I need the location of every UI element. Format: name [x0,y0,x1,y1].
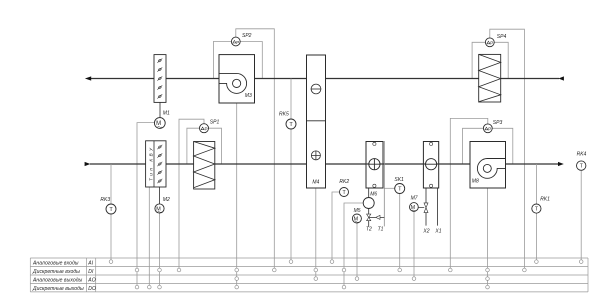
SP3 DI [449,268,453,272]
sensor SP4 (dP) [485,38,494,47]
svg-text:M8: M8 [472,178,479,184]
svg-text:Дискретные входы: Дискретные входы [32,269,80,275]
actuator M1 [154,118,165,129]
svg-text:Аналоговые входы: Аналоговые входы [32,260,79,266]
M2 DI [158,268,162,272]
SP4 DI [523,268,527,272]
actuator M7 [410,203,419,212]
svg-text:SP2: SP2 [242,33,252,39]
wire SP4 signal to DI [490,29,525,268]
thermostat SK1 [395,184,405,194]
lower duct right arrow [558,162,564,166]
exhaust fan box M3 [219,55,255,103]
heater pipe T1 [383,141,385,226]
wire fan M8 to DI/AO/DO [487,188,489,285]
SP3 dP tubes [463,128,513,163]
svg-text:T: T [109,207,113,213]
supply fan box M8 [470,142,506,189]
svg-text:T1: T1 [378,226,384,232]
M3 DO [235,285,239,289]
svg-text:AO: AO [87,277,95,283]
sensor RK5 [290,79,292,120]
sensor SP2 (dP) [231,37,240,46]
M8 DI [486,268,490,272]
damper DO [148,285,152,289]
wire SP1 signal to DI [179,119,204,268]
wire RK1 to AI [535,213,537,260]
actuator M6 [363,198,374,209]
RK2 AI [330,260,334,264]
heat recovery unit M4 [307,55,326,188]
sensor SP3 (dP) [483,124,492,133]
RK4 AI [579,260,583,264]
wire intake damper box to DO [148,187,150,285]
M4 AO [314,277,318,281]
actuator M1 stem [159,102,161,117]
svg-text:M2: M2 [163,197,170,203]
svg-text:DI: DI [88,269,94,275]
SP4 dP tubes [472,42,508,78]
cooler box [423,142,438,189]
M4 DI [314,268,318,272]
svg-text:M4: M4 [312,180,319,186]
terminal circles [109,260,583,289]
M1 DO [135,285,139,289]
svg-text:T: T [398,187,402,193]
svg-text:AI: AI [87,260,93,266]
M6 DO [342,285,346,289]
M8 AO [486,277,490,281]
SK1 capillary link [384,187,395,189]
RK1 AI [535,260,539,264]
svg-text:Дискретные выходы: Дискретные выходы [32,286,84,292]
M2 DO [158,285,162,289]
wire M7 to AO [413,211,415,276]
wire SP3 signal to DI [450,118,488,268]
fan M8 scroll [477,159,505,179]
upper duct (exhaust, flow left) [91,78,559,80]
svg-text:RK4: RK4 [577,152,587,158]
M5 AO [355,277,359,281]
svg-text:RK2: RK2 [339,179,349,185]
fan M3 scroll [220,73,247,93]
M8 DO [486,285,490,289]
damper blades M1 [157,58,162,98]
svg-text:Аналоговые выходы: Аналоговые выходы [32,277,83,283]
SP2 dP tubes [213,42,262,79]
svg-text:SK1: SK1 [394,177,404,183]
SP1 dP tubes [187,128,222,163]
svg-text:T2: T2 [366,226,372,232]
M6 DI [342,268,346,272]
upper duct left arrow [85,76,91,80]
SK1 DI [398,268,402,272]
RK3 AI [109,260,113,264]
svg-text:T: T [289,122,293,128]
cooler pipes X2 X1 and valve [426,188,438,226]
svg-text:P: P [236,40,239,45]
IO table grid [30,258,588,292]
wire M1 damper to DI/DO [137,123,154,286]
svg-text:M3: M3 [245,93,252,99]
wire RK3 to AI [110,214,112,260]
svg-text:SP3: SP3 [493,120,503,126]
upper duct right arrow [558,76,564,80]
intake damper box (Тип КВУ) [146,141,166,187]
wire M4 to DI/AO [315,188,317,277]
SP1 DI [177,268,181,272]
svg-text:X1: X1 [434,228,441,234]
SP2 DI [273,268,277,272]
wire RK5 to AI [290,129,292,260]
sensor RK4 [577,161,586,170]
actuator M2 stem [159,187,161,204]
svg-text:RK1: RK1 [540,197,550,203]
actuator M2 [155,204,164,213]
sensor RK1 [535,164,537,204]
wire M2 to DI/DO [159,213,161,285]
M1 DI [135,268,139,272]
filter SP4 [479,54,501,102]
wire RK2 to AI [332,192,340,260]
RK5 AI [289,260,293,264]
filter SP1 [194,142,215,190]
svg-text:P: P [488,127,491,132]
svg-text:M6: M6 [370,191,377,197]
wire SK1 to DI [399,194,401,269]
svg-text:SP4: SP4 [497,34,507,40]
wire M6 to DI/DO [344,203,363,285]
svg-text:M1: M1 [163,111,170,117]
svg-text:SP1: SP1 [210,119,220,125]
sensor RK2 [340,188,349,197]
wire RK4 to AI [580,170,582,259]
exhaust damper box (M1) [154,55,166,103]
sensor SP1 (dP) [200,124,209,133]
M3 DI [235,268,239,272]
damper blades intake [157,145,162,183]
svg-text:P: P [490,41,493,46]
M7 AO [412,277,416,281]
svg-text:M7: M7 [411,196,418,202]
sensor RK3 [110,164,112,204]
valve M6 stem and body [368,188,370,226]
wire M5 to AO [356,223,358,277]
svg-text:X2: X2 [422,228,429,234]
svg-text:P: P [205,127,208,132]
lower duct left arrow [85,162,91,166]
svg-text:M5: M5 [354,208,361,214]
wire SP2 signal to DI [236,29,274,268]
svg-text:RK3: RK3 [100,197,110,203]
pump M5 [352,214,361,223]
lower duct (supply, flow right) [90,163,558,165]
water heater box [366,142,383,189]
svg-text:RK5: RK5 [279,111,289,117]
M3 AO [235,277,239,281]
svg-text:DO: DO [88,286,96,292]
wire fan M3 to DI/AO/DO [236,103,238,285]
